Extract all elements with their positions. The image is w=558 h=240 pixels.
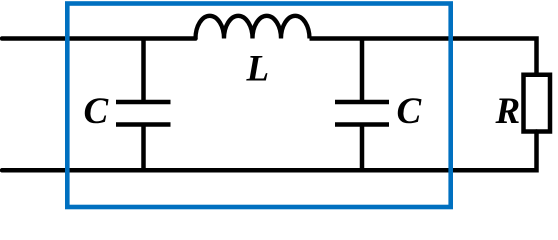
capacitor C1 bottom plate (116, 122, 171, 127)
wire: left capacitor upper lead (141, 39, 146, 101)
svg-text:C: C (397, 91, 423, 132)
wire: top rail right segment to resistor top (310, 39, 537, 75)
resistor R (rectangle body) (524, 75, 551, 132)
svg-text:R: R (495, 91, 521, 132)
wire: right capacitor lower lead (360, 127, 365, 171)
blue boundary box (67, 4, 450, 208)
capacitor C2 bottom plate (335, 122, 389, 127)
wire: left capacitor lower lead (141, 127, 146, 171)
capacitor C1 top plate (116, 100, 171, 105)
svg-text:C: C (84, 91, 110, 132)
capacitor C2 top plate (335, 100, 389, 105)
svg-text:L: L (246, 49, 270, 90)
inductor L (four arcs) (196, 16, 310, 39)
wire: right capacitor upper lead (360, 39, 365, 101)
wire: top rail left segment (2, 36, 196, 41)
wire: resistor bottom lead and bottom rail (2, 132, 537, 171)
